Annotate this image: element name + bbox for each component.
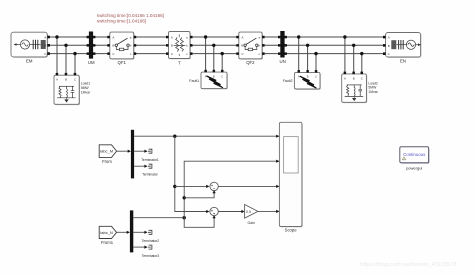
svg-text:UM: UM	[88, 60, 95, 65]
wire B: EM to UM	[50, 44, 89, 46]
svg-text:QF1: QF1	[118, 60, 127, 65]
load Load1	[54, 75, 91, 105]
node: tap Ia_M to Sum1	[173, 185, 176, 188]
svg-text:labc_M: labc_M	[100, 149, 113, 154]
terminator Terminator1	[141, 149, 159, 162]
wire B: QF1 to T	[134, 44, 169, 46]
svg-text:Fault2: Fault2	[283, 79, 293, 83]
breaker QF1	[110, 32, 135, 65]
wire drop C to Fault2	[315, 54, 317, 73]
node: tap Ia_N to Sum1	[183, 196, 186, 199]
port marks QF1	[107, 36, 136, 55]
svg-text:B: B	[307, 75, 309, 79]
svg-text:B: B	[213, 74, 215, 78]
svg-text:C: C	[74, 78, 76, 82]
port marks EN inputs	[383, 36, 386, 55]
sum block Sum2	[210, 207, 218, 215]
svg-text:Fault1: Fault1	[189, 79, 199, 83]
svg-text:0.5: 0.5	[246, 210, 251, 214]
node: junction C-Fault2	[314, 52, 317, 55]
wire drop B to Load2	[353, 45, 355, 74]
svg-text:powergui: powergui	[406, 165, 422, 170]
svg-text:1Mvar: 1Mvar	[368, 90, 378, 94]
wire C: T to QF2	[190, 53, 239, 55]
svg-text:A: A	[298, 75, 300, 79]
goto tag From (Iabc_M)	[99, 145, 116, 164]
breaker QF2	[239, 32, 263, 65]
gain block Gain (0.5)	[245, 205, 258, 225]
svg-text:labc_N: labc_N	[100, 230, 113, 235]
svg-text:https://blog.csdn.net/weixin_4: https://blog.csdn.net/weixin_43115578	[360, 262, 456, 268]
svg-text:A: A	[44, 35, 46, 39]
three-phase source EM	[11, 32, 48, 63]
svg-text:5MW: 5MW	[81, 86, 90, 90]
wire drop A to Load1	[56, 37, 58, 75]
wire drop A to Load2	[344, 37, 346, 74]
wire drop B to Fault1	[213, 45, 215, 72]
wire C: EM to UM	[50, 53, 89, 55]
node: junction B-Load1	[64, 44, 67, 47]
fault breaker Fault2	[283, 72, 321, 89]
wire Ia_N to Sum2 bottom	[184, 218, 214, 228]
svg-text:C: C	[315, 75, 317, 79]
wire drop A to Fault2	[298, 37, 300, 72]
powergui block	[400, 147, 430, 171]
wire C: QF1 to T	[134, 53, 169, 55]
terminator Terminator	[142, 164, 158, 176]
wire C: UN to EN	[285, 53, 386, 55]
node: tap Ia_N main	[183, 216, 186, 219]
svg-text:Terminator: Terminator	[142, 173, 158, 177]
svg-text:QF2: QF2	[246, 60, 255, 65]
svg-text:From1: From1	[101, 240, 114, 245]
wire B: T to QF2	[190, 44, 239, 46]
svg-text:A: A	[56, 78, 58, 82]
svg-text:switching time:[0.04166 1.0416: switching time:[0.04166 1.04166]	[97, 13, 164, 18]
wire Sum2 to Gain	[218, 211, 242, 213]
svg-text:EM: EM	[26, 59, 33, 64]
svg-text:B: B	[353, 76, 355, 80]
svg-text:UN: UN	[279, 59, 285, 64]
svg-text:Terminator2: Terminator2	[142, 239, 160, 243]
wire A: UM to QF1	[93, 36, 110, 38]
scope Scope	[279, 122, 302, 232]
svg-text:A: A	[388, 36, 390, 40]
demux Demux1	[131, 130, 134, 179]
svg-text:A: A	[171, 35, 173, 39]
svg-text:Scope: Scope	[285, 228, 298, 233]
wire A: QF1 to T	[134, 36, 169, 38]
annotation: switching times	[97, 13, 164, 24]
svg-text:Terminator1: Terminator1	[141, 158, 159, 162]
node: junction B-Fault2	[306, 44, 309, 47]
wire A: EM to UM	[50, 36, 89, 38]
wire Ia_N to Sum1 bottom	[184, 193, 214, 198]
port marks QF2	[236, 36, 264, 55]
svg-text:switching time:[1.04166]: switching time:[1.04166]	[97, 19, 146, 24]
wire drop A to Fault1	[205, 37, 207, 72]
svg-text:B: B	[241, 44, 243, 48]
wire B: QF2 to UN	[262, 44, 280, 46]
wire From to Demux1	[117, 150, 128, 152]
measurement bus UM	[87, 32, 96, 66]
svg-text:A: A	[241, 35, 243, 39]
svg-text:C: C	[361, 76, 363, 80]
svg-text:B: B	[171, 44, 173, 48]
svg-text:B: B	[388, 44, 390, 48]
node: junction A-Load1	[55, 35, 58, 38]
svg-text:Continuous: Continuous	[403, 152, 426, 157]
fault breaker Fault1	[189, 72, 228, 89]
port marks T	[166, 36, 193, 55]
transformer T	[169, 32, 191, 66]
node: tap Ia_M	[173, 135, 176, 138]
wire Demux2 out1 (Ia_N)	[133, 217, 184, 219]
svg-text:Load1: Load1	[81, 82, 91, 86]
terminator Terminator2	[142, 230, 160, 243]
wire Demux2 out2 to Terminator2	[133, 231, 145, 233]
svg-text:B: B	[112, 44, 114, 48]
svg-text:A: A	[344, 76, 346, 80]
port marks Load1	[56, 73, 76, 76]
node: junction B-Load2	[352, 44, 355, 47]
wire A: UN to EN	[285, 36, 386, 38]
node: junction C-Load2	[360, 52, 363, 55]
svg-text:C: C	[221, 74, 223, 78]
svg-text:Terminator3: Terminator3	[142, 254, 160, 258]
svg-text:Load2: Load2	[368, 81, 378, 85]
node: junction A-Fault2	[297, 35, 300, 38]
wire C: QF2 to UN	[262, 53, 280, 55]
svg-text:1Mvar: 1Mvar	[81, 90, 91, 94]
demux Demux2	[130, 210, 133, 252]
wire Demux2 out3 to Terminator3	[133, 246, 145, 248]
wire drop C to Fault1	[221, 54, 223, 73]
wire Demux1 out3 to Terminator	[134, 165, 145, 167]
wire A: QF2 to UN	[262, 36, 280, 38]
node: junction C-Load1	[73, 52, 76, 55]
port marks EM outputs	[47, 36, 50, 55]
wire drop C to Load1	[74, 54, 76, 76]
wire Gain to Scope in4	[258, 210, 279, 212]
node: junction A-Load2	[343, 35, 346, 38]
wire drop B to Fault2	[307, 45, 309, 72]
measurement bus UN	[278, 31, 287, 64]
svg-text:Gain: Gain	[248, 221, 256, 225]
goto tag From1 (Iabc_N)	[99, 226, 116, 245]
port marks Load2	[344, 72, 363, 75]
port marks Fault2	[298, 70, 318, 73]
node: junction B-Fault1	[212, 44, 215, 47]
wire Demux1 out2 to Terminator1	[134, 150, 145, 152]
wire B: UN to EN	[285, 44, 386, 46]
wire A: T to QF2	[190, 36, 239, 38]
wire Demux1 out1 to Scope in1	[134, 135, 279, 137]
svg-text:5MW: 5MW	[368, 86, 377, 90]
wire Ia_N vertical branch to Scope in2	[184, 161, 279, 218]
svg-text:B: B	[44, 44, 46, 48]
wire From1 to Demux2	[117, 231, 127, 233]
wire Sum1 to Scope in3	[218, 185, 278, 187]
load Load2	[342, 74, 379, 103]
svg-text:B: B	[65, 78, 67, 82]
wire Ia_M vertical branch	[175, 136, 208, 211]
terminator Terminator3	[142, 245, 160, 258]
wire C: UM to QF1	[93, 53, 110, 55]
svg-text:T: T	[178, 61, 181, 66]
three-phase source EN	[386, 33, 422, 64]
wire drop C to Load2	[361, 54, 363, 74]
svg-text:A: A	[112, 35, 114, 39]
wire B: UM to QF1	[93, 44, 110, 46]
sum block Sum1	[210, 182, 218, 190]
node: junction A-Fault1	[204, 35, 207, 38]
svg-text:EN: EN	[400, 59, 406, 64]
port marks Fault1	[204, 70, 223, 73]
node: junction C-Fault1	[221, 52, 224, 55]
svg-text:From: From	[102, 159, 112, 164]
wire drop B to Load1	[65, 45, 67, 75]
wire Ia_M to Sum1 left	[175, 185, 208, 187]
